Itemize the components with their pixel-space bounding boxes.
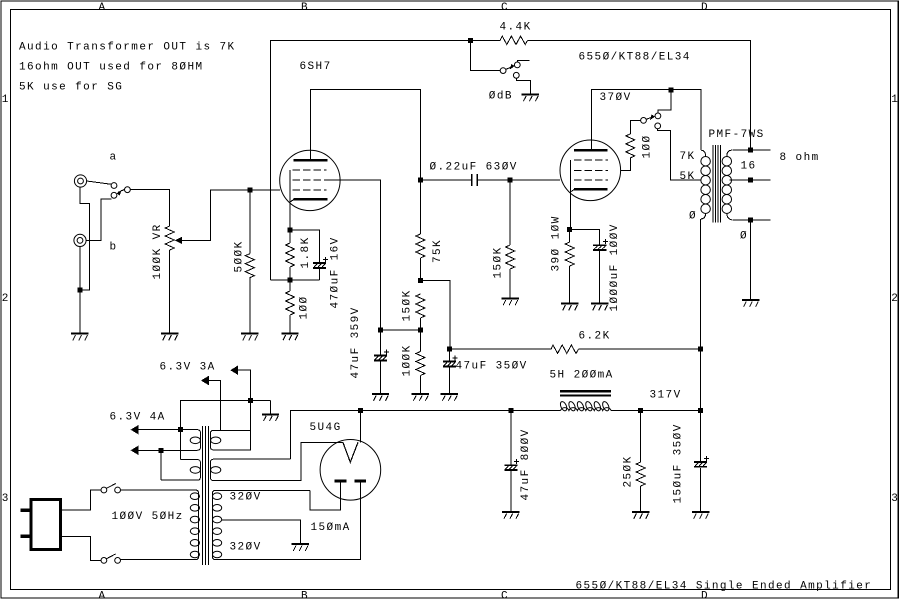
wire screen node link	[381, 329, 421, 331]
rectifier heater winding turn 2	[211, 459, 291, 480]
svg-text:6.3V 4A: 6.3V 4A	[110, 411, 166, 423]
wire 6.3V 3A lower arrow	[230, 366, 250, 401]
node 6550 grid	[508, 177, 513, 182]
arrow 6.3V 4A top	[131, 425, 139, 434]
wire heater top to ground rail	[180, 400, 250, 459]
node screen supply	[378, 328, 383, 333]
svg-text:PMF-7WS: PMF-7WS	[709, 129, 765, 141]
svg-text:6SH7: 6SH7	[300, 61, 332, 73]
switch feedback 0dB	[500, 60, 529, 78]
node cathode bottom	[288, 278, 293, 283]
6SH7 plate	[294, 150, 328, 160]
6550 cathode	[570, 189, 607, 192]
6SH7 grid 2 dashes	[292, 179, 330, 181]
6SH7 suppressor-cathode tie and cathode lead	[289, 170, 291, 230]
svg-text:16: 16	[741, 161, 757, 173]
svg-text:ØdB: ØdB	[489, 91, 513, 103]
6SH7 grid 3 dashes	[292, 169, 326, 171]
wire 6SH7 screen lead	[330, 180, 380, 330]
node secondary 16 tap	[748, 178, 753, 183]
svg-text:47uF 359V: 47uF 359V	[350, 306, 362, 378]
6550 grid 2 dashes	[574, 169, 608, 171]
svg-text:15ØK: 15ØK	[493, 246, 505, 278]
svg-text:5H 2ØØmA: 5H 2ØØmA	[550, 369, 614, 381]
resistor 1.8K cathode	[286, 230, 295, 280]
potentiometer 100K VR	[165, 226, 182, 250]
power switch top	[101, 484, 121, 493]
tube 6SH7 envelope	[280, 150, 340, 210]
wire cathode to bypass cap branch	[290, 230, 320, 262]
node 6.3V 4A bottom tie	[158, 448, 163, 453]
resistor 250K bleeder	[636, 410, 645, 511]
tube 5U4G envelope	[320, 440, 381, 501]
ground 390 resistor	[561, 304, 578, 311]
svg-text:32ØV: 32ØV	[230, 541, 262, 553]
svg-text:6.2K: 6.2K	[579, 330, 611, 342]
ground 150uF 350V	[692, 512, 709, 519]
wire feedback line from output to cathode	[270, 40, 500, 280]
node 6.2K right	[698, 347, 703, 352]
wire cathode bottom row	[270, 279, 319, 281]
ground 0dB switch	[522, 95, 539, 102]
ground 500K	[241, 334, 258, 341]
wire pot bottom to ground	[169, 250, 171, 333]
power switch bottom	[101, 554, 121, 563]
svg-text:2: 2	[2, 293, 10, 305]
svg-text:47uF 8ØØV: 47uF 8ØØV	[520, 428, 532, 500]
svg-text:5ØØK: 5ØØK	[234, 240, 246, 272]
svg-text:32ØV: 32ØV	[230, 491, 262, 503]
wire plate 2 to HV winding bottom	[222, 483, 360, 560]
node 5U4G filament B+ tap	[358, 408, 363, 413]
svg-text:4.4K: 4.4K	[500, 21, 532, 33]
ground 47uF 800V	[502, 512, 519, 519]
switch UL tap selector	[641, 113, 661, 129]
wire secondary 16 tap	[730, 179, 771, 181]
input selector switch SW1	[111, 183, 130, 199]
node coupling cap left	[418, 177, 423, 182]
heater winding 6.3V 4A turn 1	[138, 430, 200, 451]
svg-text:47uF 35ØV: 47uF 35ØV	[456, 361, 528, 373]
svg-text:1ØØK VR: 1ØØK VR	[152, 223, 164, 279]
resistor 75K plate load	[416, 180, 425, 281]
ground 250K	[632, 512, 649, 519]
wire plate 1 to HV winding top	[310, 483, 340, 511]
svg-text:a: a	[110, 152, 118, 164]
5U4G plate 1	[335, 480, 347, 483]
wire HV center tap	[222, 520, 300, 543]
wire 5U4G filament right to B+	[359, 410, 361, 442]
6550 grid 1 dashes	[574, 179, 608, 181]
input jack b	[74, 234, 86, 246]
wire switch lower throw to 5K tap	[658, 129, 701, 180]
tube 6550 envelope	[560, 140, 621, 201]
wire 4.4K to output transformer tap	[528, 40, 751, 150]
AC plug	[21, 500, 61, 550]
node 6SH7 cathode	[288, 228, 293, 233]
capacitor 1000uF 100V cathode bypass	[570, 230, 608, 303]
rectifier heater winding turn 1	[211, 430, 251, 450]
wire heater winding turn1 bottom return	[249, 400, 251, 450]
resistor 100K bleeder	[416, 330, 425, 393]
resistor 150K 6550 grid leak	[506, 180, 515, 298]
svg-text:39Ø 1ØW: 39Ø 1ØW	[551, 215, 563, 271]
primary winding 100V	[120, 490, 199, 560]
wire switch bottom to primary	[119, 559, 122, 561]
svg-text:1: 1	[891, 94, 899, 106]
node 150K bottom	[418, 328, 423, 333]
resistor 390 10W cathode	[565, 230, 574, 303]
svg-text:5U4G: 5U4G	[310, 422, 342, 434]
svg-text:1.8K: 1.8K	[300, 236, 312, 268]
wire grid node to 6SH7	[250, 189, 280, 191]
ground 1000uF	[591, 304, 608, 311]
svg-text:1ØØØuF 1ØØV: 1ØØØuF 1ØØV	[609, 223, 621, 311]
5U4G plate 2	[355, 480, 367, 483]
wire secondary bottom to ground	[750, 220, 752, 300]
ground pot	[161, 334, 178, 341]
wire 0dB switch to ground	[516, 78, 530, 94]
svg-text:1ØØ: 1ØØ	[299, 295, 311, 319]
wire switch top to primary	[119, 489, 122, 491]
node input ground junction	[77, 288, 82, 293]
power transformer core	[203, 426, 209, 565]
wire 6.3V 4A bottoms tie	[160, 450, 162, 480]
svg-text:75K: 75K	[432, 239, 444, 263]
svg-text:Ø: Ø	[689, 211, 697, 223]
output transformer secondary winding	[722, 150, 732, 220]
svg-text:15ØmA: 15ØmA	[311, 522, 351, 534]
svg-text:b: b	[110, 242, 118, 254]
ground heater rail	[262, 414, 279, 421]
6SH7 grid 1 dashes	[292, 189, 326, 191]
svg-text:C: C	[501, 2, 509, 14]
wire plug top to switch	[61, 490, 101, 510]
capacitor 47uF 359V screen bypass	[374, 330, 389, 393]
resistor 100 screen stopper	[621, 120, 641, 170]
node secondary bottom	[748, 217, 753, 222]
node 250K top	[638, 408, 643, 413]
wire selector to volume pot	[130, 190, 169, 226]
svg-text:B: B	[301, 590, 309, 600]
wire secondary bottom lead	[732, 219, 770, 221]
wire 370V to switch upper throw	[658, 90, 671, 113]
svg-text:15ØK: 15ØK	[402, 289, 414, 321]
6550 suppressor-cathode tie and cathode lead	[569, 160, 571, 230]
6550 plate	[574, 149, 608, 152]
wire 6.3V 3A upper arrow	[201, 376, 221, 431]
wire jack a ground jog	[80, 187, 90, 290]
svg-text:Ø.22uF 63ØV: Ø.22uF 63ØV	[430, 161, 518, 173]
svg-text:37ØV: 37ØV	[600, 92, 632, 104]
resistor 100 cathode bottom	[286, 280, 295, 333]
HV secondary winding 320V-0-320V	[213, 490, 311, 559]
svg-text:1: 1	[2, 94, 10, 106]
svg-text:Audio Transformer OUT is 7K: Audio Transformer OUT is 7K	[19, 42, 236, 54]
wire jack b down to ground	[79, 247, 81, 333]
wire choke to 317V node	[611, 409, 701, 411]
svg-text:1ØØK: 1ØØK	[402, 344, 414, 376]
ground 47uF 359V	[372, 394, 389, 401]
svg-text:7K: 7K	[680, 151, 696, 163]
node grid 6SH7	[248, 188, 253, 193]
svg-text:655Ø/KT88/EL34 Single Ended Am: 655Ø/KT88/EL34 Single Ended Amplifier	[576, 580, 873, 592]
node feedback resistor left	[468, 38, 473, 43]
ground 150K grid leak	[501, 299, 518, 306]
wire primary bottom to B+ rail	[700, 219, 702, 410]
5U4G filament	[343, 442, 358, 462]
resistor 500K grid leak	[245, 190, 254, 333]
ground HV center tap	[292, 544, 309, 551]
ground 100 resistor	[281, 334, 298, 341]
wire secondary top lead	[732, 149, 770, 151]
svg-text:B: B	[301, 2, 309, 14]
wire feedback node to 0dB switch	[470, 40, 500, 70]
svg-text:C: C	[501, 590, 509, 600]
svg-text:2: 2	[891, 293, 899, 305]
wire jack a to selector	[87, 181, 112, 184]
wire pot wiper to grid node	[181, 190, 250, 240]
output transformer core	[713, 145, 721, 223]
wire bypass cap to cathode bottom node	[319, 269, 321, 280]
node 47uF 800V top	[508, 408, 513, 413]
capacitor 0.22uF 630V coupling	[421, 174, 561, 186]
node 75K bottom	[418, 278, 423, 283]
svg-text:655Ø/KT88/EL34: 655Ø/KT88/EL34	[579, 52, 691, 64]
node heater top junction	[178, 427, 183, 432]
svg-text:1ØØV 5ØHz: 1ØØV 5ØHz	[112, 511, 184, 523]
svg-text:D: D	[701, 2, 709, 14]
svg-text:317V: 317V	[650, 389, 682, 401]
node 370V plate line	[668, 87, 673, 92]
ground 47uF 350V	[441, 394, 458, 401]
node 6550 cathode	[567, 227, 572, 232]
svg-text:6.3V 3A: 6.3V 3A	[160, 361, 216, 373]
6550 grid 3 dashes	[574, 159, 608, 161]
resistor 150K decoupling	[416, 294, 425, 330]
6SH7 cathode	[290, 199, 327, 202]
svg-text:3: 3	[891, 493, 899, 505]
svg-text:3: 3	[2, 493, 10, 505]
svg-text:5K: 5K	[680, 171, 696, 183]
svg-text:Ø: Ø	[740, 230, 748, 242]
resistor 4.4K feedback	[500, 36, 527, 44]
svg-text:8 ohm: 8 ohm	[780, 152, 820, 164]
capacitor 470uF 16V cathode bypass	[313, 257, 328, 269]
svg-text:5K use for SG: 5K use for SG	[19, 82, 123, 94]
node secondary top	[748, 148, 753, 153]
node 317V	[698, 408, 703, 413]
svg-text:25ØK: 25ØK	[623, 455, 635, 487]
wire B+ rail from rectifier	[290, 410, 560, 459]
node B+ driver branch	[447, 347, 452, 352]
svg-text:15ØuF 35ØV: 15ØuF 35ØV	[673, 423, 685, 503]
wire junction to chassis ground	[251, 399, 271, 401]
svg-text:A: A	[99, 2, 107, 14]
wire filament left to heater winding	[214, 442, 343, 480]
capacitor 150uF 350V filter	[694, 410, 709, 511]
wire jack b to selector	[86, 199, 111, 241]
ground 100K bleeder	[412, 394, 429, 401]
arrow 6.3V 4A bottom	[131, 446, 161, 455]
ground input jacks	[71, 334, 88, 341]
ground secondary	[742, 300, 759, 307]
wire 6550 plate to 370V	[591, 90, 701, 151]
input jack a	[74, 175, 86, 187]
choke 5H 200mA	[559, 391, 611, 411]
svg-text:A: A	[99, 590, 107, 600]
svg-text:1ØØ: 1ØØ	[642, 134, 654, 158]
output transformer primary winding	[701, 150, 711, 219]
heater winding 6.3V 4A turn 2	[161, 460, 201, 481]
node heater ground junction	[248, 398, 253, 403]
svg-text:16ohm OUT used for 8ØHM: 16ohm OUT used for 8ØHM	[19, 62, 204, 74]
resistor 6.2K dropping	[449, 345, 700, 353]
svg-text:47ØuF 16V: 47ØuF 16V	[330, 236, 342, 308]
capacitor 47uF 800V filter	[504, 410, 519, 511]
wire 75K node to B+ branch	[420, 281, 450, 350]
capacitor 47uF 350V decoupling	[443, 349, 458, 393]
wire plug bottom to switch	[61, 536, 101, 560]
wire 6SH7 plate route to coupling cap	[310, 90, 420, 180]
